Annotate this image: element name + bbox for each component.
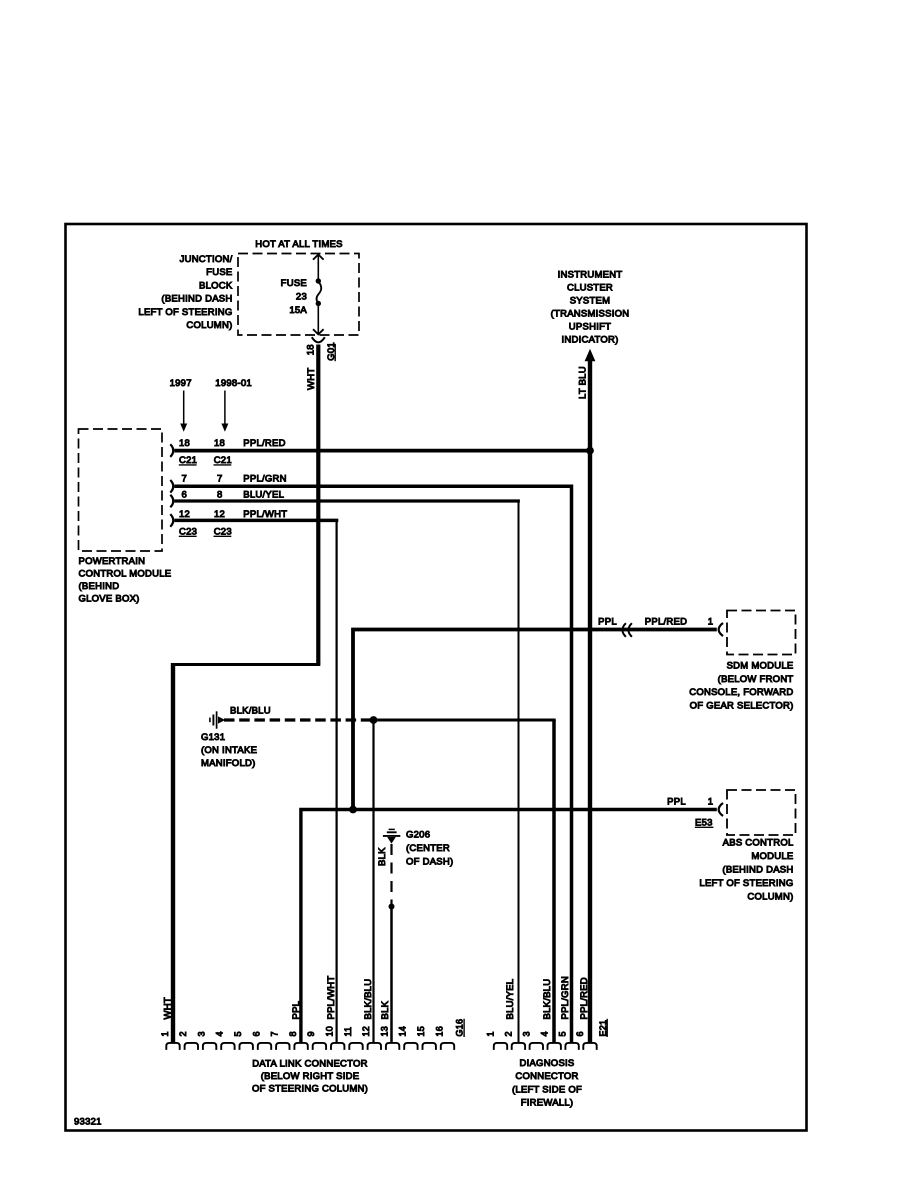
svg-text:BLK/BLU: BLK/BLU xyxy=(230,706,271,717)
svg-text:BLU/YEL: BLU/YEL xyxy=(505,979,516,1020)
svg-text:(BEHIND DASH: (BEHIND DASH xyxy=(161,294,232,305)
svg-text:8: 8 xyxy=(288,1031,298,1036)
svg-text:GLOVE BOX): GLOVE BOX) xyxy=(79,594,140,605)
SDM module (dashed box) xyxy=(727,611,796,655)
svg-text:PPL/WHT: PPL/WHT xyxy=(243,509,287,520)
svg-text:7: 7 xyxy=(270,1031,280,1036)
svg-text:HOT AT ALL TIMES: HOT AT ALL TIMES xyxy=(255,239,342,250)
svg-text:8: 8 xyxy=(217,490,223,501)
svg-text:INDICATOR): INDICATOR) xyxy=(561,335,618,346)
svg-text:14: 14 xyxy=(398,1026,408,1037)
PCM pin sockets xyxy=(170,444,173,457)
svg-text:2: 2 xyxy=(178,1031,188,1036)
svg-text:G131: G131 xyxy=(201,732,225,743)
svg-text:18: 18 xyxy=(214,438,225,449)
svg-text:3: 3 xyxy=(522,1031,532,1036)
junction node: PPL/RED row meets cluster line xyxy=(586,447,594,455)
svg-text:1: 1 xyxy=(160,1031,170,1036)
svg-text:SYSTEM: SYSTEM xyxy=(570,296,611,307)
svg-text:DIAGNOSIS: DIAGNOSIS xyxy=(519,1058,574,1069)
svg-text:1: 1 xyxy=(708,797,714,808)
wire PPL branch up/right to SDM module xyxy=(353,630,717,812)
svg-text:(BELOW RIGHT SIDE: (BELOW RIGHT SIDE xyxy=(261,1071,360,1082)
svg-text:7: 7 xyxy=(217,474,223,485)
svg-text:BLOCK: BLOCK xyxy=(199,280,233,291)
svg-text:BLK/BLU: BLK/BLU xyxy=(363,979,374,1020)
connector cup below fuse box xyxy=(312,337,325,342)
diagnosis connector pins xyxy=(494,1043,507,1050)
svg-text:1998-01: 1998-01 xyxy=(215,378,252,389)
wire BLK dashed from G206 to splice xyxy=(390,844,392,907)
svg-text:15A: 15A xyxy=(289,305,307,316)
wire PPL/WHT: PCM right then down to DLC pin 10 xyxy=(175,519,339,523)
powertrain control module (dashed box) xyxy=(79,429,163,551)
svg-text:12: 12 xyxy=(179,509,190,520)
ground G206 symbol xyxy=(389,828,395,830)
svg-text:18: 18 xyxy=(179,438,190,449)
svg-text:7: 7 xyxy=(182,474,188,485)
svg-text:5: 5 xyxy=(557,1031,567,1036)
svg-text:16: 16 xyxy=(434,1026,444,1037)
svg-text:6: 6 xyxy=(251,1031,261,1036)
svg-text:COLUMN): COLUMN) xyxy=(186,320,232,331)
svg-text:PPL/WHT: PPL/WHT xyxy=(326,976,337,1020)
svg-text:MODULE: MODULE xyxy=(751,851,793,862)
svg-text:BLK: BLK xyxy=(377,847,388,866)
svg-text:G16: G16 xyxy=(455,1019,465,1037)
svg-text:POWERTRAIN: POWERTRAIN xyxy=(79,556,146,567)
svg-text:OF GEAR SELECTOR): OF GEAR SELECTOR) xyxy=(690,700,794,711)
junction node PPL / SDM branch xyxy=(349,806,357,814)
svg-text:OF STEERING COLUMN): OF STEERING COLUMN) xyxy=(252,1084,368,1095)
ground G131 symbol xyxy=(209,718,211,723)
svg-text:6: 6 xyxy=(182,490,188,501)
inline connector (( on SDM wire xyxy=(622,623,626,637)
ABS control module (dashed box) xyxy=(727,790,796,835)
svg-text:WHT: WHT xyxy=(306,368,317,390)
svg-text:1997: 1997 xyxy=(170,378,192,389)
svg-text:LT BLU: LT BLU xyxy=(577,366,588,399)
svg-text:PPL/GRN: PPL/GRN xyxy=(243,474,286,485)
wire BLU/YEL: PCM right then down to diagnosis pin 2 xyxy=(175,499,520,502)
svg-text:10: 10 xyxy=(325,1026,335,1037)
svg-text:(BEHIND: (BEHIND xyxy=(79,581,120,592)
svg-text:G206: G206 xyxy=(406,830,430,841)
svg-text:PPL/RED: PPL/RED xyxy=(645,617,687,628)
svg-text:9: 9 xyxy=(306,1031,316,1036)
wire BLK/BLU solid right then down to diagnosis pin 4 xyxy=(374,719,556,722)
wire PPL/GRN: PCM right then down to diagnosis pin 5 xyxy=(175,486,572,1043)
svg-text:4: 4 xyxy=(539,1031,549,1036)
svg-text:(ON INTAKE: (ON INTAKE xyxy=(201,745,257,756)
wire WHT: fuse down, left, down to DLC pin 1 xyxy=(316,345,320,665)
svg-text:UPSHIFT: UPSHIFT xyxy=(569,322,611,333)
svg-text:1: 1 xyxy=(486,1031,496,1036)
svg-text:INSTRUMENT: INSTRUMENT xyxy=(558,270,623,281)
svg-text:BLK: BLK xyxy=(380,1000,391,1019)
svg-text:6: 6 xyxy=(575,1031,585,1036)
svg-text:WHT: WHT xyxy=(162,997,173,1019)
wire BLK/BLU dashed from G131 to splice xyxy=(224,718,374,721)
svg-text:(TRANSMISSION: (TRANSMISSION xyxy=(551,309,630,320)
wire PPL: DLC pin 8 up, right to ABS module xyxy=(301,810,717,1044)
svg-text:5: 5 xyxy=(233,1031,243,1036)
svg-text:15: 15 xyxy=(416,1026,426,1037)
svg-text:BLK/BLU: BLK/BLU xyxy=(542,979,553,1020)
svg-text:DATA LINK CONNECTOR: DATA LINK CONNECTOR xyxy=(252,1059,368,1070)
wire PPL/RED row: PCM to junction with cluster line xyxy=(175,449,591,453)
svg-text:PPL: PPL xyxy=(291,1001,302,1020)
svg-text:11: 11 xyxy=(343,1027,353,1037)
svg-text:13: 13 xyxy=(379,1026,389,1037)
svg-text:LEFT OF STEERING: LEFT OF STEERING xyxy=(138,307,232,318)
svg-text:MANIFOLD): MANIFOLD) xyxy=(201,758,256,769)
wire LT BLU / PPL-RED vertical to diagnosis pin 6 xyxy=(588,360,592,1044)
SDM module pin socket xyxy=(719,623,723,636)
junction/fuse block (dashed box) xyxy=(238,254,359,336)
svg-text:OF DASH): OF DASH) xyxy=(406,857,453,868)
svg-text:18: 18 xyxy=(305,344,316,355)
svg-text:93321: 93321 xyxy=(74,1117,102,1128)
svg-text:12: 12 xyxy=(214,509,225,520)
svg-text:PPL: PPL xyxy=(667,797,686,808)
ABS module pin socket xyxy=(719,803,723,816)
svg-text:(CENTER: (CENTER xyxy=(406,843,450,854)
svg-text:ABS CONTROL: ABS CONTROL xyxy=(723,838,794,849)
svg-text:(BELOW FRONT: (BELOW FRONT xyxy=(718,674,794,685)
svg-text:PPL/RED: PPL/RED xyxy=(579,977,590,1019)
svg-text:3: 3 xyxy=(196,1031,206,1036)
border frame xyxy=(66,224,807,1131)
svg-text:(LEFT SIDE OF: (LEFT SIDE OF xyxy=(512,1084,582,1095)
svg-text:CONSOLE, FORWARD: CONSOLE, FORWARD xyxy=(689,687,793,698)
svg-text:12: 12 xyxy=(361,1026,371,1037)
svg-text:23: 23 xyxy=(296,292,307,303)
svg-text:2: 2 xyxy=(504,1031,514,1036)
svg-text:JUNCTION/: JUNCTION/ xyxy=(180,254,233,265)
svg-text:E21: E21 xyxy=(598,1020,608,1037)
svg-text:BLU/YEL: BLU/YEL xyxy=(243,490,284,501)
svg-text:COLUMN): COLUMN) xyxy=(747,892,793,903)
svg-text:PPL/RED: PPL/RED xyxy=(243,438,285,449)
svg-text:CONNECTOR: CONNECTOR xyxy=(515,1071,578,1082)
data link connector pins xyxy=(166,1043,179,1050)
svg-text:LEFT OF STEERING: LEFT OF STEERING xyxy=(699,878,793,889)
svg-text:FUSE: FUSE xyxy=(281,278,307,289)
splice node on BLK/BLU xyxy=(370,716,378,724)
svg-text:FUSE: FUSE xyxy=(206,267,232,278)
svg-text:4: 4 xyxy=(215,1031,225,1036)
svg-text:SDM MODULE: SDM MODULE xyxy=(727,661,794,672)
splice node on BLK xyxy=(389,904,395,910)
svg-text:PPL/GRN: PPL/GRN xyxy=(560,976,571,1019)
wire BLK/BLU branch down to DLC pin 12 xyxy=(372,720,374,1044)
svg-text:FIREWALL): FIREWALL) xyxy=(521,1098,574,1109)
svg-text:1: 1 xyxy=(708,617,714,628)
svg-text:CLUSTER: CLUSTER xyxy=(567,283,613,294)
svg-text:PPL: PPL xyxy=(598,617,617,628)
fuse 23 symbol xyxy=(313,255,324,260)
arrow to instrument cluster xyxy=(585,349,596,362)
svg-text:(BEHIND DASH: (BEHIND DASH xyxy=(722,865,793,876)
wire BLK solid down to DLC pin 13 xyxy=(390,907,393,1044)
svg-text:CONTROL MODULE: CONTROL MODULE xyxy=(79,569,172,580)
